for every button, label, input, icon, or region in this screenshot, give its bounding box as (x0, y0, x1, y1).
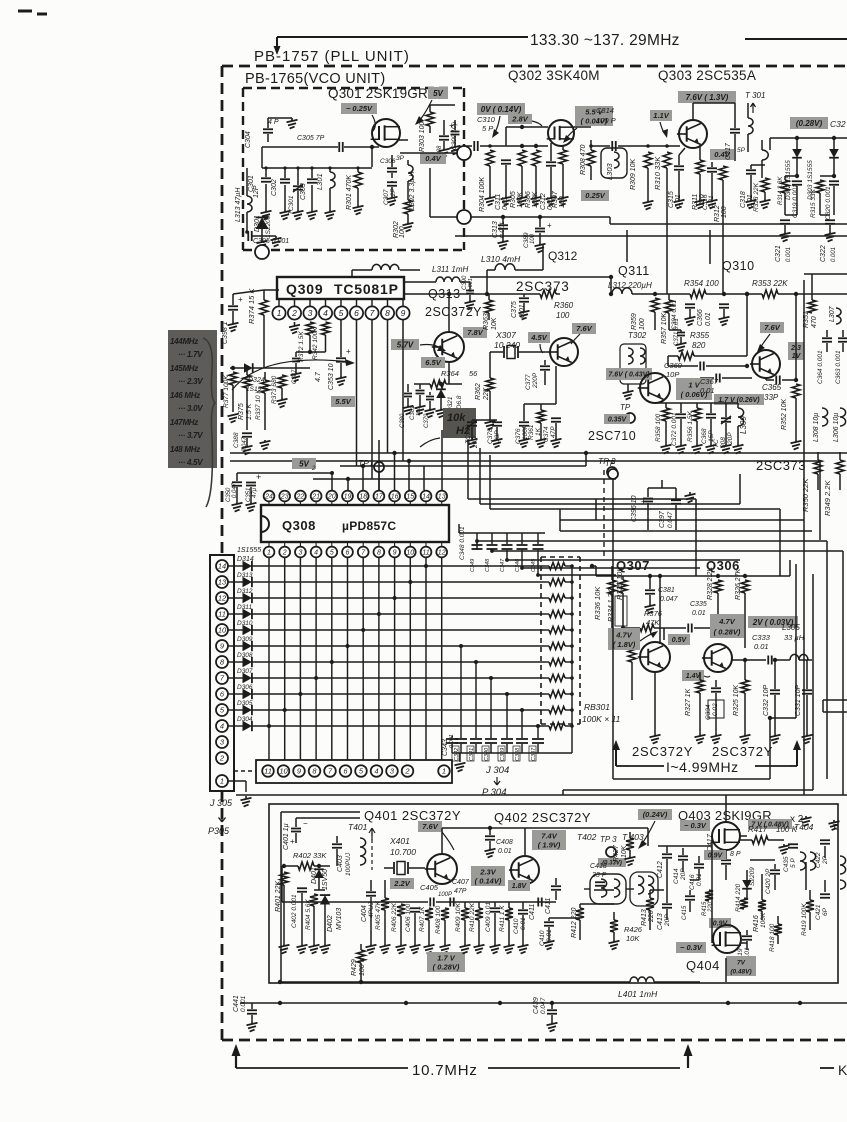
svg-text:C365: C365 (762, 383, 782, 392)
svg-text:16: 16 (391, 494, 399, 501)
svg-text:12P: 12P (253, 185, 260, 198)
svg-text:L401 1mH: L401 1mH (618, 989, 658, 999)
wire Q307 left feed (595, 566, 597, 576)
wire Q308 pin risers (347, 479, 349, 490)
wire C369/C367 node (667, 356, 669, 366)
RB301 resistors (549, 563, 565, 570)
svg-text:D307: D307 (237, 668, 253, 675)
svg-text:P 304: P 304 (482, 787, 506, 798)
voltage 7.4V(1.9V) (532, 830, 566, 850)
svg-text:100 P: 100 P (596, 116, 616, 125)
svg-text:PB-1757 (PLL UNIT): PB-1757 (PLL UNIT) (254, 48, 410, 65)
svg-text:C410: C410 (513, 918, 520, 934)
svg-text:4: 4 (374, 767, 378, 776)
svg-text:··· 3.0V: ··· 3.0V (178, 404, 203, 413)
svg-text:T.: T. (832, 823, 838, 832)
VCO output terminal 1 (457, 146, 471, 160)
svg-text:R361: R361 (528, 424, 535, 440)
svg-text:R325 10K: R325 10K (733, 685, 740, 716)
svg-text:C411: C411 (545, 898, 552, 914)
svg-text:145MHz: 145MHz (170, 364, 198, 373)
svg-text:+: + (346, 347, 351, 356)
wire R372 bottom rail (296, 351, 326, 353)
svg-text:4 P: 4 P (268, 119, 279, 126)
transformer T301 secondary (762, 150, 768, 160)
svg-text:146 MHz: 146 MHz (170, 391, 200, 400)
svg-text:100K × 11: 100K × 11 (582, 714, 621, 724)
matrix column wires (268, 557, 270, 760)
page corner mark top-left (18, 10, 32, 13)
svg-text:C435: C435 (783, 856, 790, 872)
svg-text:9: 9 (393, 550, 397, 557)
transistor Q310 2SC373 (752, 350, 780, 378)
voltage 6.5V (421, 357, 445, 368)
Q308 pins 24-13 (264, 491, 275, 502)
svg-text:22: 22 (296, 494, 305, 501)
transistor Q306 (704, 644, 732, 672)
svg-text:5V: 5V (299, 459, 309, 468)
svg-text:4.5V: 4.5V (530, 333, 547, 342)
wire Q403 drain riser (725, 795, 727, 822)
svg-text:17: 17 (375, 494, 384, 501)
svg-text:5.7V: 5.7V (397, 340, 414, 349)
svg-text:10P: 10P (666, 370, 679, 379)
svg-text:Q312: Q312 (548, 249, 578, 263)
svg-text:5 P: 5 P (482, 124, 493, 133)
svg-text:R315 33K: R315 33K (810, 188, 817, 218)
svg-text:1.4V: 1.4V (686, 673, 702, 680)
svg-text:C305 7P: C305 7P (297, 135, 325, 142)
voltage 0.9V a (704, 850, 726, 860)
svg-text:R352 10K: R352 10K (781, 399, 788, 430)
svg-text:R326 27K: R326 27K (735, 569, 742, 600)
wire Q401 collector rail (442, 827, 520, 829)
transistor Q313 2SC372Y circle (434, 332, 464, 362)
ground pin2 (294, 322, 296, 326)
svg-text:C379: C379 (424, 413, 430, 428)
svg-text:3: 3 (308, 308, 313, 318)
svg-text:R336 10K: R336 10K (593, 586, 602, 620)
brace for note block (203, 338, 215, 507)
VCO unit dashed border (243, 87, 464, 89)
svg-text:7.6V ( 1.3V): 7.6V ( 1.3V) (686, 93, 729, 102)
wire bottom interconnects (281, 866, 283, 902)
voltage 4.7V(0.28V) (710, 614, 744, 638)
svg-text:15: 15 (406, 494, 414, 501)
svg-text:C401 1µ: C401 1µ (283, 823, 290, 850)
svg-text:D310: D310 (237, 620, 253, 627)
svg-text:10k: 10k (447, 412, 466, 424)
svg-text:7.6V: 7.6V (576, 324, 592, 333)
svg-text:C368: C368 (701, 428, 708, 444)
svg-text:··· 2.3V: ··· 2.3V (178, 377, 203, 386)
svg-text:µPD857C: µPD857C (342, 519, 396, 533)
svg-text:2: 2 (311, 466, 316, 472)
svg-text:J 304: J 304 (485, 765, 509, 776)
svg-text:6: 6 (346, 550, 350, 557)
svg-text:L308 10µ: L308 10µ (813, 413, 820, 442)
svg-text:D312: D312 (237, 588, 253, 595)
svg-text:L306 10µ: L306 10µ (833, 413, 840, 442)
svg-text:C377: C377 (525, 374, 532, 390)
svg-text:C341: C341 (469, 748, 475, 761)
svg-text:2.2V: 2.2V (393, 879, 410, 888)
svg-text:D306: D306 (237, 684, 253, 691)
svg-text:2SC372Y: 2SC372Y (425, 305, 482, 319)
voltage 1V(0.06V) (676, 378, 712, 400)
svg-text:C439: C439 (533, 997, 540, 1014)
svg-text:J 305: J 305 (209, 798, 233, 808)
voltage 5.7V (391, 339, 419, 350)
transistor Q301 2SK19GR (372, 119, 400, 147)
svg-text:C363 0.001: C363 0.001 (835, 350, 842, 384)
svg-text:2.8V: 2.8V (511, 115, 528, 124)
wire Q301 source (398, 139, 408, 141)
svg-text:Q311: Q311 (618, 264, 650, 278)
voltage 1.8V (508, 880, 530, 891)
svg-text:0.9V: 0.9V (708, 853, 724, 860)
svg-text:220: 220 (708, 901, 714, 913)
svg-text:Q307: Q307 (616, 558, 650, 573)
svg-text:10: 10 (218, 626, 227, 635)
svg-text:R402 33K: R402 33K (293, 851, 327, 860)
svg-text:R327 1K: R327 1K (685, 688, 692, 716)
svg-text:L307: L307 (829, 305, 836, 322)
svg-text:5V: 5V (433, 89, 443, 98)
wire Q310 base link (747, 377, 752, 379)
svg-text:47P: 47P (454, 888, 467, 895)
svg-text:+: + (290, 837, 295, 846)
wire 5V rail to pin20 (237, 472, 332, 474)
bottom connector J304 (256, 760, 452, 783)
svg-text:4: 4 (314, 550, 318, 557)
svg-text:2: 2 (282, 550, 287, 557)
svg-text:1S1555: 1S1555 (237, 547, 261, 554)
mid nested rect lower (612, 479, 614, 779)
svg-text:C411: C411 (529, 904, 536, 920)
voltage 0.4V (420, 153, 446, 164)
svg-text:1.8V: 1.8V (512, 883, 528, 890)
svg-text:X401: X401 (389, 836, 410, 846)
svg-text:0.01: 0.01 (754, 642, 769, 651)
svg-text:R410 22K: R410 22K (469, 902, 476, 932)
right frame lines (626, 230, 628, 262)
svg-text:C407: C407 (452, 879, 470, 886)
wire Q301 drain to 5V rail (430, 104, 455, 106)
svg-text:R350 22K: R350 22K (801, 478, 810, 512)
svg-text:C422: C422 (815, 852, 822, 868)
svg-text:100: 100 (721, 206, 728, 218)
voltage 4.7V(1.8V) (608, 628, 640, 650)
svg-text:9: 9 (401, 308, 406, 318)
svg-text:C415: C415 (682, 905, 688, 920)
svg-text:C395 0.001: C395 0.001 (253, 238, 289, 245)
voltage 0.35V (604, 414, 630, 424)
ground R337 (264, 440, 266, 442)
svg-text:C375: C375 (511, 301, 518, 318)
svg-text:5 P: 5 P (790, 858, 797, 868)
svg-text:0V ( 0.14V): 0V ( 0.14V) (481, 105, 522, 114)
svg-text:C364 0.001: C364 0.001 (817, 350, 824, 384)
svg-text:7V: 7V (737, 959, 746, 966)
svg-text:0.35V: 0.35V (608, 417, 628, 424)
svg-text:5.5V: 5.5V (335, 397, 351, 406)
svg-text:C314: C314 (596, 106, 614, 115)
svg-text:8: 8 (377, 550, 381, 557)
svg-text:C321: C321 (775, 245, 782, 262)
wire top right rail (770, 137, 847, 139)
svg-text:C397: C397 (659, 510, 666, 528)
svg-text:R372 1.5K: R372 1.5K (298, 331, 305, 362)
svg-text:R342 100K: R342 100K (312, 327, 319, 360)
arrow from note block (232, 360, 350, 390)
svg-text:− 0.3V: − 0.3V (680, 943, 703, 952)
svg-text:+: + (449, 121, 454, 130)
svg-text:R413: R413 (641, 909, 648, 926)
svg-text:R310 33K: R310 33K (653, 156, 662, 190)
svg-text:C348 0.001: C348 0.001 (459, 526, 466, 560)
svg-text:18: 18 (359, 494, 367, 501)
svg-text:C402 0.001: C402 0.001 (291, 894, 298, 928)
svg-text:7.6V: 7.6V (422, 822, 438, 831)
voltage 7.8V (463, 327, 487, 338)
svg-text:100PUJ: 100PUJ (345, 852, 352, 876)
svg-text:12: 12 (218, 594, 227, 603)
svg-text:0.001: 0.001 (786, 247, 792, 262)
svg-text:··· 1.7V: ··· 1.7V (178, 350, 203, 359)
svg-text:Q401 2SC372Y: Q401 2SC372Y (364, 808, 461, 823)
transistor Q303 2SC535A (679, 120, 707, 148)
svg-text:1.7 V: 1.7 V (437, 954, 456, 963)
svg-text:100: 100 (556, 311, 570, 320)
wire Q402 collector riser (524, 828, 526, 855)
svg-text:L313 47µH: L313 47µH (235, 187, 242, 222)
svg-text:7.6V: 7.6V (764, 323, 780, 332)
svg-text:C408: C408 (496, 839, 513, 846)
wire Q306 top rail (680, 575, 790, 577)
voltage 0.9V b (709, 918, 731, 928)
svg-text:R312: R312 (714, 205, 721, 222)
svg-text:R401 22K: R401 22K (275, 881, 282, 912)
wire Q313 emitter drop (448, 362, 450, 384)
svg-text:D305: D305 (237, 700, 253, 707)
svg-text:R314 3.3K: R314 3.3K (778, 176, 784, 205)
svg-text:R334 1.2K: R334 1.2K (608, 589, 615, 622)
svg-text:0.01: 0.01 (700, 386, 715, 395)
connector J305 strip (210, 555, 234, 791)
svg-text:C311: C311 (495, 194, 502, 210)
wire Q309 pin drops (356, 320, 358, 466)
wire right bus pair (610, 223, 847, 225)
svg-text:1.1V: 1.1V (653, 111, 669, 120)
svg-text:10K: 10K (491, 317, 498, 330)
svg-text:C332 10P: C332 10P (763, 685, 770, 716)
wire Q310 collector (765, 294, 767, 350)
10.7MHz pointer right (488, 1067, 680, 1069)
RB301 right bus (570, 564, 574, 568)
svg-text:5: 5 (330, 550, 334, 557)
svg-text:C348: C348 (485, 558, 491, 572)
svg-text:TC: TC (713, 439, 720, 448)
svg-text:1: 1 (267, 550, 271, 557)
svg-text:D304: D304 (237, 716, 253, 723)
svg-text:8 P: 8 P (730, 851, 741, 858)
svg-text:3P: 3P (396, 155, 405, 162)
wire Q302 drain (574, 126, 591, 128)
svg-text:··· 3.7V: ··· 3.7V (178, 431, 203, 440)
matrix row wires (252, 565, 545, 567)
svg-text:( 0.14V): ( 0.14V) (475, 877, 502, 886)
svg-text:C441: C441 (233, 995, 240, 1012)
svg-text:C32: C32 (830, 119, 846, 129)
svg-text:10: 10 (406, 550, 414, 557)
transistor Q404 fet (713, 925, 741, 953)
svg-text:14: 14 (218, 562, 226, 571)
svg-text:K: K (838, 1062, 847, 1078)
wire Q301 gate (372, 146, 379, 148)
svg-text:10: 10 (279, 767, 288, 776)
svg-text:R309 10K: R309 10K (630, 159, 637, 190)
svg-text:X307: X307 (495, 330, 516, 340)
wire upper right feeds (441, 430, 443, 490)
svg-text:100: 100 (639, 318, 646, 330)
svg-text:R357 10K: R357 10K (661, 313, 668, 344)
node: arrow into PB-1757 (276, 37, 278, 52)
svg-text:C310: C310 (477, 115, 496, 124)
svg-text:T302: T302 (628, 331, 647, 340)
svg-text:C404: C404 (361, 905, 368, 922)
svg-text:6: 6 (354, 308, 359, 318)
svg-text:R412 220: R412 220 (571, 908, 578, 938)
svg-text:D308: D308 (237, 652, 253, 659)
svg-text:R362: R362 (475, 383, 482, 400)
voltage TP3 033V (598, 858, 626, 867)
svg-text:R354 100: R354 100 (684, 279, 719, 288)
svg-text:C312: C312 (540, 193, 547, 210)
wire bottom verticals (405, 795, 407, 804)
svg-text:33 P: 33 P (592, 872, 607, 879)
svg-text:11: 11 (218, 610, 226, 619)
svg-text:33 µH: 33 µH (784, 633, 805, 642)
svg-text:R427: R427 (613, 844, 620, 862)
svg-text:Q308: Q308 (282, 518, 316, 533)
svg-text:R358 100: R358 100 (655, 413, 662, 442)
svg-text:··· 4.5V: ··· 4.5V (178, 458, 203, 467)
svg-text:C412: C412 (657, 861, 664, 878)
transistor Q302 3SK40M (548, 120, 574, 146)
wire Q303 collector down (692, 148, 694, 224)
svg-text:0.047: 0.047 (540, 997, 547, 1014)
svg-text:C420 2P: C420 2P (765, 868, 772, 894)
svg-text:D313: D313 (237, 572, 253, 579)
svg-text:12: 12 (438, 550, 446, 557)
svg-text:C409 0.01: C409 0.01 (485, 902, 492, 932)
svg-text:2: 2 (404, 767, 410, 776)
svg-text:R409 10K: R409 10K (455, 902, 462, 932)
svg-text:100P: 100P (438, 892, 452, 898)
svg-text:7.8V: 7.8V (467, 328, 483, 337)
svg-text:0.5V: 0.5V (672, 637, 688, 644)
svg-text:R313 22K: R313 22K (753, 182, 760, 212)
transistor Q403 fet (712, 822, 740, 850)
voltage 5V2 (292, 458, 316, 469)
wire R355 feed (746, 294, 748, 356)
junction dots bottom rail (404, 1001, 408, 1005)
svg-text:Q402 2SC372Y: Q402 2SC372Y (494, 810, 591, 825)
svg-text:220P: 220P (532, 372, 539, 389)
svg-text:R373 680: R373 680 (271, 375, 278, 404)
wire mid 277 bus (470, 276, 611, 278)
svg-text:C376: C376 (515, 428, 522, 444)
svg-text:19: 19 (344, 494, 352, 501)
svg-text:R426: R426 (624, 925, 643, 934)
voltage 7V(0.48V) Q403 (748, 819, 792, 829)
svg-text:R359: R359 (631, 313, 638, 330)
svg-text:(0.48V): (0.48V) (730, 968, 751, 975)
transistor Q401 (427, 854, 457, 884)
svg-text:11: 11 (422, 550, 429, 557)
voltage 2V(0.03V) (748, 616, 798, 628)
wire Q307 collector (659, 576, 661, 644)
voltage (0.24V) (638, 809, 672, 820)
svg-text:Q303 2SC535A: Q303 2SC535A (658, 68, 756, 83)
IC Q309 TC5081P box (277, 277, 404, 299)
svg-text:C388: C388 (233, 432, 240, 448)
svg-text:C313: C313 (492, 221, 499, 238)
inductor L310b 4mH (372, 264, 399, 270)
svg-text:24: 24 (264, 494, 273, 501)
voltage -0.3V Q403 (680, 820, 710, 831)
10.7MHz pointer left (236, 1067, 408, 1069)
wire staircase right drops (695, 499, 697, 576)
svg-text:( 0.28V): ( 0.28V) (433, 963, 460, 972)
transistor Q307 (640, 642, 670, 672)
Q309 pins 1-9 (278, 299, 280, 306)
voltage 2.3V(0.14V) (471, 866, 505, 886)
svg-text:8: 8 (385, 308, 390, 318)
svg-text:+: + (238, 295, 243, 304)
svg-text:7: 7 (370, 308, 375, 318)
svg-text:C421: C421 (815, 904, 822, 920)
svg-text:T404: T404 (794, 822, 814, 832)
svg-text:5P: 5P (737, 147, 746, 154)
svg-text:1: 1 (277, 308, 282, 318)
svg-text:C414: C414 (673, 868, 680, 884)
voltage 0.25V (581, 190, 609, 201)
transistor Q402 (511, 856, 539, 884)
svg-text:L305: L305 (782, 623, 800, 632)
svg-text:13: 13 (438, 494, 446, 501)
svg-text:20P: 20P (727, 432, 734, 445)
svg-text:Q301 2SK19GR: Q301 2SK19GR (328, 86, 428, 101)
wire Q309 pin risers (309, 318, 311, 322)
svg-text:10.700: 10.700 (390, 847, 416, 857)
svg-text:L310 4mH: L310 4mH (481, 254, 521, 264)
wire: top frequency bus (277, 36, 528, 38)
svg-text:− 0.25V: − 0.25V (346, 104, 373, 113)
svg-text:R305: R305 (510, 191, 517, 208)
svg-text:820: 820 (692, 341, 706, 350)
voltage 5V (428, 87, 448, 99)
voltage 7.6V(1.3V) (678, 91, 736, 103)
svg-text:C338: C338 (515, 747, 521, 761)
svg-text:C413: C413 (657, 913, 664, 930)
svg-text:2SC372Y: 2SC372Y (632, 744, 693, 759)
IC Q308 uPD857C box (261, 505, 449, 542)
svg-text:10K: 10K (626, 934, 640, 943)
svg-text:C342: C342 (454, 748, 460, 761)
svg-text:2.3V: 2.3V (479, 868, 496, 877)
